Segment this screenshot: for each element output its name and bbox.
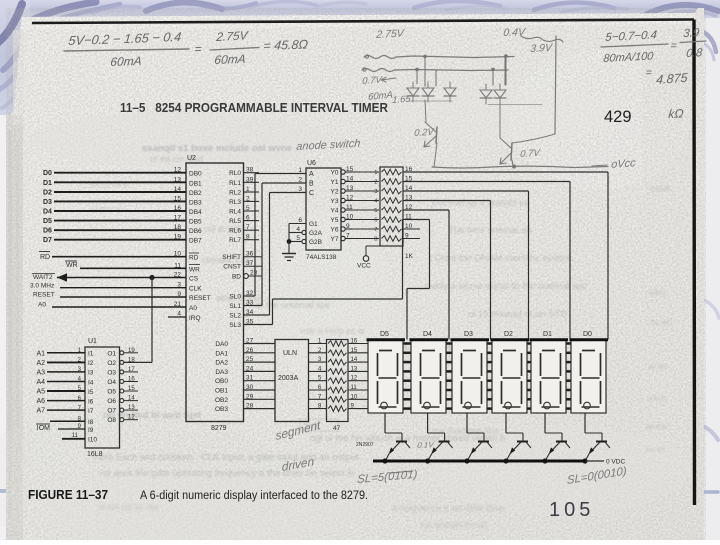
svg-text:2003A: 2003A bbox=[278, 375, 299, 382]
svg-text:6: 6 bbox=[246, 215, 250, 222]
svg-text:10: 10 bbox=[174, 251, 182, 258]
svg-text:U6: U6 bbox=[307, 160, 316, 167]
svg-text:26: 26 bbox=[246, 347, 254, 354]
svg-text:he ntl: he ntl bbox=[646, 445, 665, 454]
svg-text:D1: D1 bbox=[543, 331, 552, 338]
svg-text:19: 19 bbox=[174, 234, 182, 241]
svg-text:7: 7 bbox=[346, 232, 350, 239]
svg-text:3: 3 bbox=[177, 282, 181, 289]
svg-text:0.8: 0.8 bbox=[686, 47, 704, 60]
svg-text:ULN: ULN bbox=[283, 350, 297, 357]
svg-text:13: 13 bbox=[174, 176, 182, 183]
svg-text:nw dmade ihn wt: nw dmade ihn wt bbox=[420, 520, 488, 530]
svg-text:60mA: 60mA bbox=[214, 52, 247, 67]
svg-text:sn thr: sn thr bbox=[648, 362, 667, 371]
svg-text:1K: 1K bbox=[405, 253, 414, 260]
svg-text:CLK: CLK bbox=[189, 286, 202, 293]
svg-text:2.75V: 2.75V bbox=[215, 28, 249, 44]
svg-text:A7: A7 bbox=[36, 408, 45, 415]
svg-text:18: 18 bbox=[174, 224, 182, 231]
svg-text:2N2907: 2N2907 bbox=[356, 442, 374, 448]
svg-text:D4: D4 bbox=[43, 209, 52, 216]
svg-text:D4: D4 bbox=[423, 331, 432, 338]
svg-text:RD: RD bbox=[189, 255, 199, 262]
svg-text:RL0: RL0 bbox=[229, 170, 241, 177]
svg-text:13: 13 bbox=[128, 405, 135, 411]
svg-text:8: 8 bbox=[246, 234, 250, 241]
svg-text:B: B bbox=[309, 181, 314, 188]
svg-text:30: 30 bbox=[246, 384, 254, 391]
svg-text:O5: O5 bbox=[107, 389, 116, 396]
svg-text:3.0 MHz: 3.0 MHz bbox=[30, 283, 54, 290]
svg-text:SL3: SL3 bbox=[229, 322, 241, 329]
svg-text:RL1: RL1 bbox=[229, 180, 241, 187]
svg-text:I7: I7 bbox=[88, 408, 94, 415]
svg-text:22: 22 bbox=[174, 272, 182, 279]
svg-text:oVcc: oVcc bbox=[611, 157, 637, 171]
svg-text:WR: WR bbox=[189, 266, 200, 273]
svg-text:nd asck the gate operating fre: nd asck the gate operating frequency a t… bbox=[100, 468, 355, 479]
svg-text:A0: A0 bbox=[189, 305, 197, 312]
svg-text:DB4: DB4 bbox=[189, 209, 202, 216]
svg-text:31: 31 bbox=[246, 375, 254, 382]
svg-text:I8: I8 bbox=[88, 419, 94, 426]
svg-text:O6: O6 bbox=[107, 398, 116, 405]
svg-text:1: 1 bbox=[246, 186, 250, 193]
svg-text:I1: I1 bbox=[88, 351, 94, 358]
svg-text:Y3: Y3 bbox=[331, 198, 339, 205]
svg-text:CNST: CNST bbox=[223, 264, 241, 271]
svg-text:bfmne at: bfmne at bbox=[90, 204, 124, 214]
svg-text:I9: I9 bbox=[88, 427, 94, 434]
svg-text:lw dso: lw dso bbox=[646, 422, 667, 431]
svg-text:27: 27 bbox=[246, 338, 254, 345]
svg-text:RL5: RL5 bbox=[229, 218, 241, 225]
svg-text:sre cnamted nho: sre cnamted nho bbox=[432, 426, 499, 436]
svg-text:A3: A3 bbox=[36, 369, 45, 376]
svg-text:IOM: IOM bbox=[37, 425, 50, 432]
svg-text:OB1: OB1 bbox=[215, 388, 228, 395]
svg-text:VCC: VCC bbox=[357, 263, 371, 270]
svg-text:8279: 8279 bbox=[211, 425, 227, 432]
svg-text:5: 5 bbox=[374, 208, 377, 214]
svg-text:A2: A2 bbox=[36, 360, 45, 367]
svg-text:RESET: RESET bbox=[33, 292, 55, 299]
svg-text:kΩ: kΩ bbox=[668, 106, 685, 121]
svg-text:G1: G1 bbox=[309, 221, 318, 228]
svg-text:SL1: SL1 bbox=[229, 303, 241, 310]
svg-text:U2: U2 bbox=[187, 155, 196, 162]
svg-text:2.75V: 2.75V bbox=[375, 28, 405, 42]
svg-text:RESET: RESET bbox=[189, 295, 211, 302]
svg-text:2: 2 bbox=[246, 195, 250, 202]
svg-text:19: 19 bbox=[128, 348, 135, 354]
svg-text:0 VDC: 0 VDC bbox=[606, 459, 625, 466]
svg-text:A1: A1 bbox=[36, 350, 45, 357]
svg-text:A4: A4 bbox=[36, 379, 45, 386]
svg-text:D5: D5 bbox=[380, 331, 389, 338]
svg-text:11–5 8254 PROGRAMMABLE INTER: 11–5 8254 PROGRAMMABLE INTERVAL TIMER bbox=[120, 101, 388, 115]
svg-text:SHIFT: SHIFT bbox=[222, 254, 241, 261]
svg-text:I5: I5 bbox=[88, 389, 94, 396]
svg-text:nstr d Help es le: nstr d Help es le bbox=[300, 326, 365, 336]
svg-text:Y5: Y5 bbox=[331, 217, 339, 224]
svg-text:G2A: G2A bbox=[309, 230, 323, 237]
svg-text:BD: BD bbox=[232, 274, 241, 281]
svg-text:A5: A5 bbox=[36, 389, 45, 396]
svg-text:D7: D7 bbox=[43, 237, 52, 244]
svg-text:D2: D2 bbox=[43, 190, 52, 197]
svg-text:WR: WR bbox=[66, 262, 78, 269]
svg-text:l Onre the DHAM memory system: l Onre the DHAM memory system bbox=[430, 253, 572, 264]
svg-text:15: 15 bbox=[128, 386, 135, 392]
svg-text:DB0: DB0 bbox=[189, 171, 202, 178]
svg-text:29: 29 bbox=[246, 393, 254, 400]
svg-text:RL4: RL4 bbox=[229, 209, 241, 216]
svg-text:RL3: RL3 bbox=[229, 199, 241, 206]
svg-text:D3: D3 bbox=[43, 199, 52, 206]
svg-text:Y4: Y4 bbox=[331, 208, 339, 215]
svg-text:16: 16 bbox=[128, 377, 135, 383]
svg-text:5: 5 bbox=[246, 205, 250, 212]
svg-text:RL7: RL7 bbox=[229, 237, 241, 244]
svg-text:DA0: DA0 bbox=[215, 341, 228, 348]
svg-text:7: 7 bbox=[246, 224, 250, 231]
svg-text:23: 23 bbox=[250, 270, 258, 277]
svg-text:nl 15 msiead of an STD: nl 15 msiead of an STD bbox=[468, 309, 567, 320]
svg-text:11: 11 bbox=[174, 262, 181, 269]
svg-text:Y1: Y1 bbox=[331, 179, 339, 186]
svg-text:Y6: Y6 bbox=[331, 227, 339, 234]
svg-text:4: 4 bbox=[177, 311, 181, 318]
svg-text:9: 9 bbox=[177, 291, 181, 298]
svg-text:7: 7 bbox=[374, 227, 377, 233]
svg-text:to the unternal spe: to the unternal spe bbox=[256, 300, 331, 310]
svg-text:D6: D6 bbox=[43, 228, 52, 235]
svg-text:OB3: OB3 bbox=[215, 406, 228, 413]
svg-text:0.7V: 0.7V bbox=[520, 148, 542, 161]
svg-text:17: 17 bbox=[174, 215, 182, 222]
svg-text:RL2: RL2 bbox=[229, 190, 241, 197]
svg-text:O2: O2 bbox=[107, 360, 116, 367]
svg-text:D2: D2 bbox=[504, 331, 513, 338]
svg-text:A6: A6 bbox=[36, 398, 45, 405]
svg-text:OB0: OB0 bbox=[215, 378, 228, 385]
svg-text:WAIT2: WAIT2 bbox=[33, 274, 53, 281]
svg-text:429: 429 bbox=[604, 108, 632, 126]
svg-text:Y7: Y7 bbox=[331, 236, 339, 243]
svg-text:DB5: DB5 bbox=[189, 219, 202, 226]
svg-text:RL6: RL6 bbox=[229, 228, 241, 235]
svg-text:12: 12 bbox=[128, 415, 135, 421]
svg-text:0.2V: 0.2V bbox=[414, 127, 436, 140]
svg-text:17: 17 bbox=[128, 367, 135, 373]
svg-text:1.65: 1.65 bbox=[392, 94, 412, 106]
svg-text:U1: U1 bbox=[88, 338, 97, 345]
svg-text:O7: O7 bbox=[107, 408, 116, 415]
svg-text:Y0: Y0 bbox=[331, 170, 339, 177]
svg-text:a frequency c an oihtr thno: a frequency c an oihtr thno bbox=[392, 503, 505, 514]
svg-text:O1: O1 bbox=[107, 350, 116, 357]
svg-text:9: 9 bbox=[346, 223, 350, 230]
svg-text:21: 21 bbox=[174, 301, 182, 308]
svg-text:= 45.8Ω: = 45.8Ω bbox=[263, 37, 309, 53]
svg-text:I2: I2 bbox=[88, 360, 94, 367]
svg-text:da wkl: da wkl bbox=[650, 318, 672, 327]
svg-text:O8: O8 bbox=[107, 417, 116, 424]
svg-text:3.9V: 3.9V bbox=[530, 42, 554, 55]
svg-text:A: A bbox=[309, 171, 314, 178]
svg-text:DB7: DB7 bbox=[189, 238, 202, 245]
svg-text:0.1V: 0.1V bbox=[417, 440, 435, 450]
svg-text:39: 39 bbox=[246, 176, 254, 183]
svg-text:A0: A0 bbox=[38, 302, 46, 309]
svg-text:DA2: DA2 bbox=[215, 360, 228, 367]
svg-text:aered mnd: aered mnd bbox=[88, 179, 129, 189]
svg-text:Pnl msf ap d nremhl eo: Pnl msf ap d nremhl eo bbox=[432, 198, 530, 209]
svg-text:sxanqd s1 boxe mclude oal wvne: sxanqd s1 boxe mclude oal wvne bbox=[142, 143, 292, 154]
svg-text:8: 8 bbox=[374, 237, 377, 243]
svg-text:38: 38 bbox=[246, 167, 254, 174]
svg-text:O3: O3 bbox=[107, 369, 116, 376]
svg-text:74ALS138: 74ALS138 bbox=[306, 254, 337, 261]
svg-text:12: 12 bbox=[174, 167, 182, 174]
svg-text:Y2: Y2 bbox=[331, 189, 339, 196]
svg-text:14: 14 bbox=[128, 396, 135, 402]
svg-text:60mA: 60mA bbox=[110, 54, 143, 69]
svg-text:D0: D0 bbox=[43, 170, 52, 177]
svg-text:DA1: DA1 bbox=[215, 350, 228, 357]
svg-text:14: 14 bbox=[174, 186, 182, 193]
svg-text:D5: D5 bbox=[43, 218, 52, 225]
svg-text:IRQ: IRQ bbox=[189, 315, 201, 322]
svg-text:16: 16 bbox=[174, 205, 182, 212]
svg-text:nl sm cd xe rhe: nl sm cd xe rhe bbox=[98, 502, 159, 512]
svg-text:16L8: 16L8 bbox=[87, 451, 103, 458]
svg-text:3: 3 bbox=[374, 189, 377, 195]
svg-text:2: 2 bbox=[374, 180, 377, 186]
svg-text:D0: D0 bbox=[583, 331, 592, 338]
svg-text:0.7V: 0.7V bbox=[362, 75, 384, 88]
svg-text:D1: D1 bbox=[43, 180, 52, 187]
svg-text:47: 47 bbox=[333, 425, 341, 432]
svg-text:28: 28 bbox=[246, 403, 254, 410]
svg-text:CS: CS bbox=[189, 276, 199, 283]
svg-text:O4: O4 bbox=[107, 379, 116, 386]
svg-text:36: 36 bbox=[246, 251, 254, 258]
svg-text:DB6: DB6 bbox=[189, 228, 202, 235]
svg-text:A 6-digit numeric display inte: A 6-digit numeric display interfaced to … bbox=[140, 490, 368, 502]
svg-text:I6: I6 bbox=[88, 398, 94, 405]
svg-text:OB2: OB2 bbox=[215, 397, 228, 404]
svg-text:SL2: SL2 bbox=[229, 313, 241, 320]
svg-text:105: 105 bbox=[549, 499, 594, 521]
svg-text:15: 15 bbox=[174, 195, 182, 202]
svg-text:RD: RD bbox=[40, 254, 50, 261]
svg-text:37: 37 bbox=[246, 260, 254, 267]
svg-text:I3: I3 bbox=[88, 370, 94, 377]
svg-text:I4: I4 bbox=[88, 379, 94, 386]
svg-text:FIGURE 11–37: FIGURE 11–37 bbox=[28, 488, 108, 502]
svg-text:SL0: SL0 bbox=[229, 294, 241, 301]
svg-text:rwlinc: rwlinc bbox=[648, 288, 667, 297]
svg-text:DB3: DB3 bbox=[189, 199, 202, 206]
svg-text:D3: D3 bbox=[464, 331, 473, 338]
svg-text:4.875: 4.875 bbox=[656, 71, 689, 87]
svg-text:6: 6 bbox=[374, 218, 377, 224]
svg-text:lnesdt: lnesdt bbox=[650, 184, 671, 193]
svg-text:25: 25 bbox=[246, 356, 254, 363]
svg-text:24: 24 bbox=[246, 365, 254, 372]
svg-text:DB2: DB2 bbox=[189, 190, 202, 197]
svg-text:1: 1 bbox=[374, 170, 377, 176]
svg-text:3.9: 3.9 bbox=[683, 27, 701, 40]
svg-text:ncrs Each wrd contains : CLK i: ncrs Each wrd contains : CLK input, a ga… bbox=[95, 452, 359, 463]
svg-text:G2B: G2B bbox=[309, 239, 322, 246]
svg-text:I10: I10 bbox=[88, 437, 97, 444]
svg-text:DB1: DB1 bbox=[189, 180, 202, 187]
svg-text:a krm: a krm bbox=[648, 394, 667, 403]
svg-text:C: C bbox=[309, 190, 314, 197]
svg-text:DA3: DA3 bbox=[215, 369, 228, 376]
